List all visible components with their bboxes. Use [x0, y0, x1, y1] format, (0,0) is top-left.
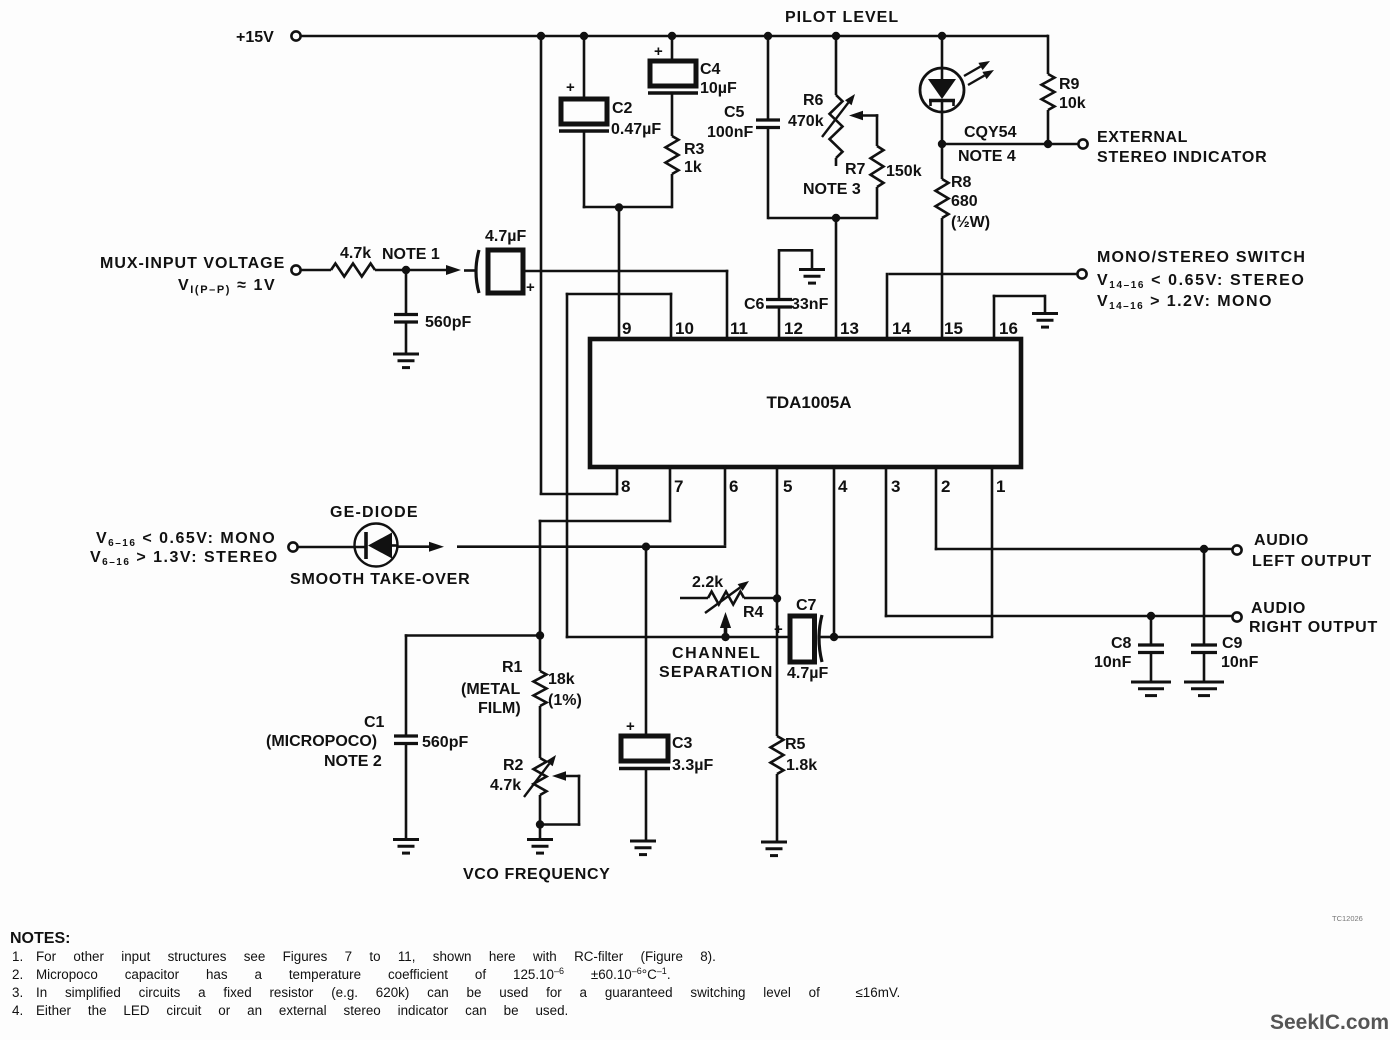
label SEPARATION	[659, 664, 774, 681]
potentiometer R6 470k	[788, 92, 855, 158]
capacitor C1 560pF	[266, 714, 468, 770]
label CHANNEL	[672, 645, 761, 662]
pin 4 stub	[833, 465, 836, 637]
label AUDIO left	[1254, 532, 1309, 549]
wire R4 left stub	[680, 597, 708, 600]
wire rail to C4	[671, 36, 674, 61]
svg-text:R3: R3	[684, 141, 705, 158]
capacitor C9 10nF	[1191, 635, 1259, 671]
label TC12026	[1332, 914, 1363, 923]
label V6-16 mono	[96, 530, 276, 549]
svg-text:2.2k: 2.2k	[692, 574, 723, 591]
svg-text:10: 10	[675, 319, 694, 338]
pin 1 number	[996, 477, 1005, 496]
node junction on rail x768	[764, 32, 772, 40]
resistor R1 18k	[461, 659, 582, 717]
node R4/pin5	[773, 594, 781, 602]
ground at 560pF	[393, 354, 419, 368]
svg-text:15: 15	[944, 319, 963, 338]
svg-text:R9: R9	[1059, 76, 1080, 93]
svg-text:1: 1	[996, 477, 1005, 496]
svg-text:3: 3	[891, 477, 900, 496]
pin 2 number	[941, 477, 950, 496]
wire rail to R6	[835, 36, 838, 95]
wire C6 to ground	[779, 249, 812, 300]
svg-text:SMOOTH TAKE-OVER: SMOOTH TAKE-OVER	[290, 571, 471, 588]
svg-text:8: 8	[621, 477, 630, 496]
svg-text:EXTERNAL: EXTERNAL	[1097, 129, 1188, 146]
svg-text:(½W): (½W)	[951, 214, 990, 231]
capacitor C5	[707, 104, 780, 141]
svg-text:C5: C5	[724, 104, 745, 121]
svg-text:33nF: 33nF	[791, 296, 829, 313]
wire rail to C5	[767, 36, 770, 120]
capacitor 560pF input	[394, 314, 471, 331]
node pin13 junction	[832, 214, 840, 222]
svg-text:NOTE 2: NOTE 2	[324, 753, 382, 770]
wire R4 right	[744, 597, 778, 600]
ground at C8	[1131, 682, 1171, 696]
node junction on rail x584	[580, 32, 588, 40]
svg-text:(MICROPOCO): (MICROPOCO)	[266, 733, 377, 750]
node C7/pin4	[830, 633, 838, 641]
svg-text:10nF: 10nF	[1094, 654, 1132, 671]
svg-text:2.Micropoco capacitor has a te: 2.Micropoco capacitor has a temperature …	[12, 966, 671, 982]
wire R9 to node	[1047, 110, 1050, 145]
svg-text:C7: C7	[796, 597, 817, 614]
svg-text:13: 13	[840, 319, 859, 338]
node C9 branch	[1200, 545, 1208, 553]
pin 12 number	[784, 319, 803, 338]
capacitor C7 4.7uF	[774, 597, 828, 682]
node junction on rail x541	[537, 32, 545, 40]
svg-text:R1: R1	[502, 659, 523, 676]
wire pin 10 loop top	[566, 293, 673, 296]
svg-text:+: +	[566, 79, 575, 96]
svg-text:GE-DIODE: GE-DIODE	[330, 504, 419, 521]
svg-text:C2: C2	[612, 100, 633, 117]
capacitor C8 10nF	[1094, 635, 1164, 671]
node R1/C1 junction	[536, 631, 544, 639]
pin 7 number	[674, 477, 683, 496]
label V(P-P)=1V	[178, 277, 276, 296]
terminal GE diode input	[288, 542, 297, 551]
pin 15 number	[944, 319, 963, 338]
LED CQY54	[920, 68, 964, 112]
ground at C1	[393, 840, 419, 854]
note 4	[12, 1003, 568, 1018]
wire diode arrow	[397, 542, 444, 552]
label V6-16 stereo	[90, 549, 279, 568]
wire C8 to ground	[1150, 653, 1153, 682]
svg-text:STEREO INDICATOR: STEREO INDICATOR	[1097, 149, 1267, 166]
svg-text:(METAL: (METAL	[461, 681, 520, 698]
wire C1 horizontal	[405, 634, 540, 637]
ground at C3	[630, 841, 656, 855]
wire C8 down	[1150, 616, 1153, 645]
svg-text:4.7k: 4.7k	[340, 245, 371, 262]
resistor R5 1.8k	[771, 736, 818, 774]
power terminal +15V	[236, 29, 301, 46]
ground at R2	[527, 840, 553, 854]
wire terminal to diode	[298, 546, 366, 549]
label NOTE 1	[382, 246, 440, 263]
svg-text:NOTE 4: NOTE 4	[958, 148, 1016, 165]
svg-text:MUX-INPUT VOLTAGE: MUX-INPUT VOLTAGE	[100, 255, 285, 272]
svg-text:R6: R6	[803, 92, 824, 109]
svg-text:NOTE 1: NOTE 1	[382, 246, 440, 263]
svg-text:12: 12	[784, 319, 803, 338]
wire channel separation horizontal	[566, 636, 790, 639]
svg-text:CQY54: CQY54	[964, 124, 1017, 141]
diode GE	[355, 524, 399, 567]
wire C9 down	[1203, 549, 1206, 645]
pin 4 number	[838, 477, 848, 496]
svg-text:PILOT LEVEL: PILOT LEVEL	[785, 9, 899, 26]
svg-text:TDA1005A: TDA1005A	[766, 393, 851, 412]
pin 3 number	[891, 477, 900, 496]
svg-text:7: 7	[674, 477, 683, 496]
node C8 branch	[1147, 612, 1155, 620]
pin 14 number	[892, 319, 911, 338]
capacitor C3 3.3uF	[619, 718, 713, 774]
pin 8 stub	[616, 465, 619, 495]
ground at C9	[1184, 682, 1224, 696]
svg-text:4.7µF: 4.7µF	[787, 665, 828, 682]
wire pin 10 loop vertical	[566, 293, 569, 639]
svg-text:AUDIO: AUDIO	[1254, 532, 1309, 549]
wire junction to pin 9	[618, 207, 621, 341]
node LED/R8/indicator	[938, 140, 946, 148]
watermark SeekIC.com	[1270, 1011, 1389, 1034]
wire R7 to bottom	[876, 187, 879, 219]
wire +15V top rail	[301, 35, 1048, 38]
label VCO FREQUENCY	[463, 866, 610, 883]
svg-text:C1: C1	[364, 714, 385, 731]
svg-text:4.7µF: 4.7µF	[485, 228, 526, 245]
svg-text:FILM): FILM)	[478, 700, 521, 717]
svg-text:1k: 1k	[684, 159, 702, 176]
pin 9 number	[622, 319, 631, 338]
svg-text:SEPARATION: SEPARATION	[659, 664, 774, 681]
node junction on rail x672	[668, 32, 676, 40]
svg-text:+: +	[526, 279, 535, 296]
label V14-16 stereo	[1097, 272, 1305, 291]
svg-text:3.3µF: 3.3µF	[672, 757, 713, 774]
label NOTE 4	[958, 148, 1016, 165]
LED light arrows	[964, 61, 994, 85]
svg-text:150k: 150k	[886, 163, 922, 180]
svg-text:18k: 18k	[548, 671, 575, 688]
ground at pin 16	[1032, 314, 1058, 328]
svg-text:16: 16	[999, 319, 1018, 338]
wiper arrow R6 to R7	[849, 111, 878, 121]
wire C7 net to pin 1	[834, 465, 993, 637]
svg-text:C3: C3	[672, 735, 693, 752]
wiper loop R2	[539, 771, 581, 826]
svg-text:(1%): (1%)	[548, 692, 582, 709]
label STEREO INDICATOR	[1097, 149, 1267, 166]
svg-text:4: 4	[838, 477, 848, 496]
label LEFT OUTPUT	[1252, 553, 1372, 570]
wire node arrow	[406, 265, 461, 275]
pin 11 number	[730, 319, 748, 338]
node 560pF junction	[402, 266, 410, 274]
terminal audio left	[1232, 545, 1241, 554]
wire terminal to R 4.7k	[301, 269, 331, 272]
label SMOOTH TAKE-OVER	[290, 571, 471, 588]
ground at R5	[761, 842, 787, 856]
label MUX-INPUT VOLTAGE	[100, 255, 285, 272]
svg-text:C4: C4	[700, 61, 721, 78]
pin 6 number	[729, 477, 738, 496]
wire C2 to junction	[583, 131, 672, 208]
capacitor C6	[744, 296, 829, 313]
wire switch line to pin 14	[887, 273, 1077, 341]
svg-text:RIGHT OUTPUT: RIGHT OUTPUT	[1249, 619, 1378, 636]
wire C3 to ground	[645, 769, 648, 841]
potentiometer R4 2.2k	[692, 574, 764, 621]
svg-text:+: +	[774, 621, 783, 638]
IC U1 TDA1005A	[590, 339, 1021, 467]
svg-text:R2: R2	[503, 757, 524, 774]
svg-text:470k: 470k	[788, 113, 824, 130]
wire LED to node	[941, 100, 944, 145]
svg-text:CHANNEL: CHANNEL	[672, 645, 761, 662]
svg-text:MONO/STEREO SWITCH: MONO/STEREO SWITCH	[1097, 249, 1306, 266]
svg-text:14: 14	[892, 319, 911, 338]
wire pin 7 horizontal	[539, 520, 672, 523]
label R7	[845, 161, 866, 178]
wire junction to pin 13	[835, 218, 838, 341]
svg-text:560pF: 560pF	[422, 734, 468, 751]
node R2 bottom	[536, 820, 544, 828]
pin 16 number	[999, 319, 1018, 338]
wire rail to LED	[941, 36, 944, 80]
potentiometer R2 4.7k	[490, 755, 556, 797]
svg-text:SeekIC.com: SeekIC.com	[1270, 1011, 1389, 1034]
svg-text:6: 6	[729, 477, 738, 496]
wire diode line to pin 6	[457, 465, 726, 547]
wire pin 3 audio right	[885, 465, 1232, 617]
note 3	[12, 985, 900, 1000]
resistor R9	[1042, 74, 1086, 112]
label EXTERNAL	[1097, 129, 1188, 146]
wire R2 to ground	[539, 795, 542, 839]
wire wiper to R7	[876, 114, 879, 146]
svg-text:4.7k: 4.7k	[490, 777, 521, 794]
wire R6 to bottom	[835, 158, 838, 166]
terminal external stereo indicator	[1078, 139, 1087, 148]
svg-text:10nF: 10nF	[1221, 654, 1259, 671]
terminal audio right	[1232, 612, 1241, 621]
pin 10 stub	[670, 293, 673, 341]
label NOTE 3	[803, 181, 861, 198]
label GE-DIODE	[330, 504, 419, 521]
resistor R3	[666, 136, 705, 176]
wire node down to C3	[645, 547, 648, 736]
wire node to R8	[941, 144, 944, 179]
wire R8 to pin 15	[941, 218, 944, 341]
node R4 wiper	[721, 633, 729, 641]
svg-text:+15V: +15V	[236, 29, 274, 46]
wire pin 7 down to R1 node	[539, 520, 542, 636]
ground at C6	[799, 270, 825, 284]
node junction on rail x836	[832, 32, 840, 40]
terminal mono/stereo switch	[1077, 269, 1086, 278]
svg-text:AUDIO: AUDIO	[1251, 600, 1306, 617]
wire rail to C2	[583, 36, 586, 99]
wire C7 to pin4 node	[819, 636, 835, 639]
wire pin 12 to C6	[778, 306, 781, 341]
svg-text:TC12026: TC12026	[1332, 914, 1363, 923]
svg-text:100nF: 100nF	[707, 124, 753, 141]
svg-text:9: 9	[622, 319, 631, 338]
resistor 4.7k input	[331, 245, 375, 277]
wire to pin 8 horizontal	[540, 493, 617, 496]
wire R1 to R2	[539, 706, 542, 758]
label MONO/STEREO SWITCH	[1097, 249, 1306, 266]
svg-text:C8: C8	[1111, 635, 1132, 652]
wire C4 to R3	[671, 93, 674, 136]
svg-text:11: 11	[730, 319, 748, 338]
svg-text:R7: R7	[845, 161, 866, 178]
wire R3 to junction	[671, 174, 674, 208]
wiper arrow R4	[720, 612, 731, 637]
svg-text:0.47µF: 0.47µF	[611, 121, 661, 138]
label RIGHT OUTPUT	[1249, 619, 1378, 636]
node C2/R3 junction	[615, 203, 623, 211]
note 2	[12, 966, 671, 982]
svg-text:560pF: 560pF	[425, 314, 471, 331]
wire 4.7uF to pin 11	[523, 270, 728, 341]
svg-text:+: +	[654, 43, 663, 60]
wire C5/R6/R7 bottom horizontal	[768, 217, 877, 220]
svg-text:4.Either the LED circuit or an: 4.Either the LED circuit or an external …	[12, 1003, 568, 1018]
wire 560pF down	[405, 270, 408, 315]
pin 10 number	[675, 319, 694, 338]
wire C5 down	[767, 128, 770, 220]
wire R5 to ground	[776, 774, 779, 842]
svg-text:NOTE 3: NOTE 3	[803, 181, 861, 198]
wire 560pF to ground	[405, 322, 408, 354]
wire indicator line	[942, 143, 1078, 146]
svg-text:R5: R5	[785, 736, 806, 753]
node junction on rail x942	[938, 32, 946, 40]
svg-text:1.For other input structures s: 1.For other input structures see Figures…	[12, 949, 716, 964]
capacitor 4.7uF input	[476, 228, 535, 296]
resistor R7	[871, 146, 922, 187]
svg-text:VCO FREQUENCY: VCO FREQUENCY	[463, 866, 610, 883]
wire node to R1	[539, 636, 542, 672]
svg-text:C6: C6	[744, 296, 765, 313]
wire C9 to ground	[1203, 653, 1206, 682]
svg-text:3.In simplified circuits a fix: 3.In simplified circuits a fixed resisto…	[12, 985, 900, 1000]
wire C1 down	[405, 634, 408, 736]
node R9/indicator	[1044, 140, 1052, 148]
resistor R8	[936, 174, 991, 231]
svg-text:10µF: 10µF	[700, 80, 737, 97]
svg-text:R4: R4	[743, 604, 764, 621]
svg-text:+: +	[626, 718, 635, 735]
svg-text:1.8k: 1.8k	[786, 757, 817, 774]
svg-text:LEFT OUTPUT: LEFT OUTPUT	[1252, 553, 1372, 570]
svg-text:NOTES:: NOTES:	[10, 930, 70, 947]
label CQY54	[964, 124, 1017, 141]
wire R to node	[375, 269, 406, 272]
pin 13 number	[840, 319, 859, 338]
wire pin 5 to R5	[776, 465, 779, 736]
svg-text:680: 680	[951, 193, 978, 210]
wire pin 16 to ground	[993, 295, 1045, 341]
pin 5 number	[783, 477, 792, 496]
label AUDIO right	[1251, 600, 1306, 617]
notes title	[10, 930, 70, 947]
wire C1 to ground	[405, 744, 408, 840]
svg-text:R8: R8	[951, 174, 972, 191]
label PILOT LEVEL	[785, 9, 899, 26]
node C3 branch	[642, 543, 650, 551]
pin 7 stub	[669, 465, 672, 522]
capacitor C2	[559, 79, 661, 138]
terminal MUX input	[291, 265, 300, 274]
svg-text:2: 2	[941, 477, 950, 496]
svg-text:5: 5	[783, 477, 792, 496]
wire pin 2 audio left	[935, 465, 1232, 550]
pin 8 number	[621, 477, 630, 496]
wire into 4.7uF cap	[464, 269, 475, 272]
note 1	[12, 949, 716, 964]
wire rail to pin 8 vertical	[540, 36, 543, 495]
wire rail corner to R9	[1047, 35, 1048, 74]
svg-text:10k: 10k	[1059, 95, 1086, 112]
label V14-16 mono	[1097, 293, 1273, 312]
capacitor C4	[648, 43, 737, 97]
svg-text:C9: C9	[1222, 635, 1243, 652]
